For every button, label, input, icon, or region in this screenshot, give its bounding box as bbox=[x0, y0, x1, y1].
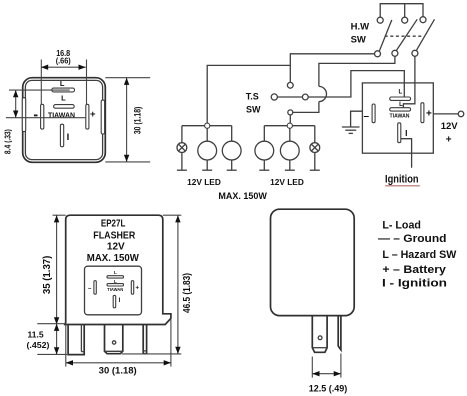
label minus bbox=[34, 114, 38, 116]
H.W switch bus stub 2 bbox=[404, 4, 406, 18]
svg-text:L- Load: L- Load bbox=[382, 220, 421, 232]
svg-text:+: + bbox=[90, 109, 96, 120]
pin slot L2 (hazard) bbox=[54, 105, 75, 109]
svg-text:30 (1.18): 30 (1.18) bbox=[99, 365, 137, 376]
wire: HW pole2 down and left bbox=[319, 56, 395, 86]
red underline bbox=[385, 185, 420, 187]
svg-text:12V LED: 12V LED bbox=[270, 177, 304, 187]
left marker lamp drop bbox=[181, 126, 183, 143]
dim 8.4 dimension line bbox=[15, 90, 17, 118]
svg-text:L: L bbox=[60, 79, 65, 88]
dim 30 right extension bbox=[170, 318, 172, 366]
pin slot I bbox=[60, 124, 63, 147]
svg-text:MAX. 150W: MAX. 150W bbox=[218, 191, 267, 201]
pin centre line through minus/plus bbox=[6, 117, 86, 119]
svg-text:L: L bbox=[398, 89, 402, 95]
dim 11.5 extension lines bbox=[37, 323, 65, 325]
svg-text:I: I bbox=[405, 128, 407, 138]
connector U1 right edge slot bbox=[101, 100, 104, 134]
H.W upper contact 1 bbox=[377, 17, 383, 23]
svg-text:TIAWAN: TIAWAN bbox=[390, 114, 410, 120]
dim 30 top extension line bbox=[105, 77, 150, 79]
right prong bbox=[142, 325, 144, 354]
side view body bbox=[271, 209, 355, 315]
svg-text:TIAWAN: TIAWAN bbox=[107, 287, 124, 292]
svg-text:(.452): (.452) bbox=[27, 340, 50, 350]
wire: relay I to ignition bbox=[401, 139, 412, 168]
svg-text:46.5 (1.83): 46.5 (1.83) bbox=[181, 273, 193, 313]
svg-text:FLASHER: FLASHER bbox=[93, 231, 136, 242]
svg-text:8.4 (.33): 8.4 (.33) bbox=[3, 129, 12, 154]
svg-text:(.66): (.66) bbox=[56, 56, 71, 65]
svg-text:+: + bbox=[426, 109, 432, 120]
H.W blade 2 bbox=[396, 19, 417, 50]
H.W upper contact 3 bbox=[420, 17, 426, 23]
relay body front view bbox=[65, 215, 171, 324]
relay slot minus bbox=[372, 104, 375, 123]
dim 30 line bbox=[66, 362, 171, 364]
pin slot minus bbox=[41, 104, 44, 129]
pin slot L1 (load) bbox=[52, 88, 75, 92]
dim 16.8 dimension line bbox=[41, 66, 86, 68]
side view centre prong bbox=[312, 316, 327, 353]
side prong hole bbox=[318, 336, 322, 340]
svg-text:11.5: 11.5 bbox=[28, 329, 44, 339]
left LED group bus bbox=[182, 125, 232, 127]
svg-text:+: + bbox=[135, 285, 139, 291]
svg-text:L – Hazard SW: L – Hazard SW bbox=[382, 249, 457, 261]
right marker lamp lead bbox=[314, 153, 316, 171]
svg-text:I: I bbox=[67, 132, 70, 143]
left lamp 2 bbox=[198, 141, 217, 160]
H.W switch bus bbox=[380, 4, 423, 18]
right lamp 1 bbox=[255, 141, 274, 160]
svg-text:MAX. 150W: MAX. 150W bbox=[87, 253, 140, 264]
dim 46.5 top extension bbox=[163, 214, 182, 216]
svg-text:L: L bbox=[61, 94, 66, 103]
mini slot L2 bbox=[107, 284, 124, 286]
left lamp 3 drop bbox=[231, 126, 233, 142]
svg-text:L: L bbox=[399, 102, 403, 108]
svg-text:TIAWAN: TIAWAN bbox=[48, 111, 75, 120]
H.W coupling dashed link bbox=[385, 35, 424, 37]
svg-text:–: – bbox=[364, 111, 370, 122]
centre prong bbox=[105, 325, 123, 354]
svg-text:— – Ground: — – Ground bbox=[378, 233, 447, 245]
T.S switch top contact bbox=[287, 82, 293, 88]
svg-text:H.W: H.W bbox=[351, 21, 370, 32]
side view blade prong bbox=[338, 316, 341, 350]
dim 8.4 upper extension line through slot L1 bbox=[9, 89, 70, 91]
centre prong hole bbox=[112, 341, 115, 344]
T.S switch bottom contact bbox=[288, 110, 293, 115]
dim 16.8 extension lines bbox=[40, 60, 42, 105]
right lamp 2 lead bbox=[289, 160, 291, 170]
dim 11.5 line bbox=[56, 324, 58, 355]
left prong bbox=[68, 325, 84, 355]
dim 30 left extension bbox=[65, 325, 67, 367]
mini pinout box bbox=[85, 266, 142, 315]
wire hop arc over TS common bbox=[319, 86, 327, 101]
connector U1 left edge slot bbox=[22, 98, 25, 132]
dim 35 line bbox=[56, 215, 58, 324]
right lamp 1 lead bbox=[263, 160, 265, 170]
svg-text:L: L bbox=[114, 270, 117, 275]
dim 46.5 bottom extension bbox=[122, 353, 182, 355]
dim 12.5 line bbox=[312, 373, 341, 375]
T.S switch blade bbox=[277, 96, 302, 98]
right marker lamp (x) bbox=[310, 143, 320, 153]
left marker lamp (x) bbox=[177, 143, 187, 153]
mini slot L1 bbox=[107, 276, 124, 278]
H.W lower contact 3 bbox=[412, 50, 418, 56]
H.W lower contact 1 bbox=[375, 51, 381, 57]
wire: HW pole3 to relay pin L2 bbox=[403, 56, 415, 107]
svg-text:12V: 12V bbox=[441, 121, 459, 132]
wire: TS bottom to right LED junction bbox=[289, 115, 291, 123]
dim 46.5 line bbox=[177, 215, 179, 354]
connector U1 inner outline bbox=[25, 80, 102, 159]
connector U1 outer outline bbox=[23, 78, 106, 163]
ground bbox=[342, 126, 360, 128]
left lamp 2 lead bbox=[206, 160, 208, 170]
H.W lower contact 2 bbox=[392, 50, 398, 56]
dim 12.5 extension lines bbox=[311, 357, 313, 378]
svg-text:+ – Battery: + – Battery bbox=[382, 264, 446, 276]
relay slot L2 bbox=[390, 108, 411, 111]
svg-text:35 (1.37): 35 (1.37) bbox=[41, 256, 53, 295]
svg-text:12V: 12V bbox=[107, 242, 125, 253]
T.S switch left contact bbox=[271, 94, 277, 100]
H.W upper contact 2 bbox=[402, 17, 408, 23]
svg-text:30 (1.18): 30 (1.18) bbox=[133, 107, 143, 134]
dim 30 bottom extension line bbox=[105, 161, 150, 163]
relay slot plus bbox=[421, 103, 424, 123]
right lamp 1 drop bbox=[263, 126, 265, 142]
right lamp 2 drop bbox=[289, 128, 291, 141]
relay slot L1 bbox=[390, 97, 411, 100]
dim 30 dimension line bbox=[126, 78, 128, 162]
svg-text:Ignition: Ignition bbox=[385, 174, 419, 186]
relay U2 box bbox=[362, 83, 433, 153]
left lamp 3 lead bbox=[231, 160, 233, 170]
svg-text:12V LED: 12V LED bbox=[187, 177, 221, 187]
svg-text:SW: SW bbox=[351, 35, 366, 46]
mini slot plus bbox=[131, 281, 133, 295]
T.S switch right contact bbox=[302, 94, 308, 100]
wire: HW pole1 to TS top contact bbox=[290, 54, 374, 83]
svg-text:12.5 (.49): 12.5 (.49) bbox=[309, 383, 348, 393]
right LED junction node bbox=[287, 123, 292, 128]
left lamp 2 drop bbox=[206, 128, 208, 141]
svg-text:SW: SW bbox=[246, 104, 261, 114]
svg-text:T.S: T.S bbox=[246, 92, 259, 102]
right marker lamp drop bbox=[314, 126, 316, 143]
mini slot minus bbox=[94, 281, 96, 295]
left LED junction node bbox=[205, 123, 210, 128]
mini slot I bbox=[113, 295, 116, 307]
H.W blade 1 bbox=[379, 20, 392, 51]
dim 35 extension line bbox=[53, 214, 66, 216]
12V terminal bbox=[458, 111, 464, 117]
pin slot plus bbox=[86, 104, 89, 129]
wire: branch to left LED junction bbox=[207, 65, 290, 123]
wire: TS common to relay pin L1 bbox=[308, 71, 404, 97]
right LED group bus bbox=[264, 125, 315, 127]
wire: relay minus to ground bbox=[351, 111, 363, 127]
wire: relay plus to 12V terminal bbox=[433, 113, 458, 115]
svg-text:EP27L: EP27L bbox=[101, 219, 126, 230]
left marker lamp lead bbox=[181, 153, 183, 171]
H.W blade 3 bbox=[416, 19, 434, 50]
wire: continue to TS bottom contact bbox=[293, 102, 319, 113]
relay slot I bbox=[398, 123, 401, 143]
svg-text:+: + bbox=[446, 135, 452, 146]
left lamp 3 bbox=[222, 141, 241, 160]
svg-text:I - Ignition: I - Ignition bbox=[382, 278, 447, 290]
right lamp 2 bbox=[280, 141, 299, 160]
